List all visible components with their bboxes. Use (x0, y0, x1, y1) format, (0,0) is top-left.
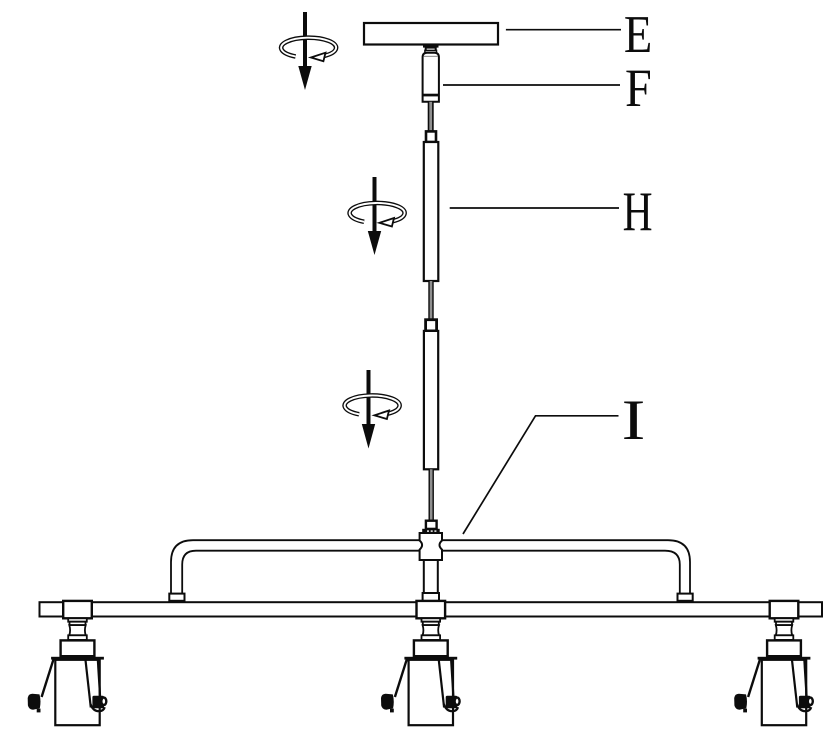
rotation symbol 3 shaft (367, 370, 371, 424)
rotation symbol 2 ellipse (350, 203, 405, 227)
cable 3 (429, 469, 434, 521)
main bar (40, 602, 823, 616)
rotation symbol 2 shaft (373, 177, 377, 231)
ceiling plate E (364, 23, 498, 45)
nut 1 (426, 131, 436, 142)
rotation symbol 2 head (368, 231, 381, 255)
svg-text:H: H (623, 180, 653, 243)
rotation symbol 1 ellipse (281, 38, 336, 62)
F inner top line (424, 55, 438, 57)
rotation symbol 3 head (362, 424, 375, 449)
leader line I (463, 416, 619, 534)
loop driver F body (423, 53, 439, 102)
leader line F (443, 84, 620, 86)
nut 2 (426, 320, 437, 331)
lock band (422, 529, 440, 533)
plate stem (426, 48, 436, 52)
right lamp (734, 601, 813, 725)
center lamp (381, 601, 460, 725)
frame left foot (169, 594, 184, 601)
plate stem collar (423, 45, 439, 48)
hub stem (424, 560, 438, 593)
F lower band (422, 94, 439, 97)
rotation symbol 1 head (298, 66, 311, 90)
rotation symbol 3 ellipse (345, 395, 400, 419)
cable 2 (428, 281, 433, 320)
nut 3 (426, 521, 437, 529)
frame tube outer line (171, 540, 690, 593)
hub spool (420, 533, 442, 560)
rod H (424, 142, 439, 281)
rod 2 (424, 331, 438, 469)
left lamp (28, 601, 107, 725)
stem lip (425, 50, 437, 52)
svg-text:F: F (625, 58, 652, 118)
lock band dashes (427, 530, 429, 531)
hub stem lower (423, 593, 439, 601)
leader line H (450, 207, 619, 209)
leader line E (506, 29, 621, 31)
rotation symbol 1 shaft (303, 12, 307, 66)
frame tube inner line (182, 551, 680, 594)
frame right foot (678, 594, 693, 601)
cable 1 (428, 102, 434, 132)
svg-text:I: I (622, 389, 646, 452)
svg-text:E: E (624, 5, 652, 63)
